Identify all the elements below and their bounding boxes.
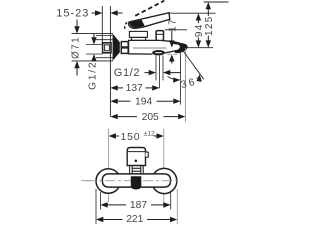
svg-text:15-23: 15-23 <box>56 7 89 19</box>
dim G1/2 (left, wall connection) <box>88 34 99 90</box>
svg-text:125: 125 <box>204 16 215 36</box>
body inner line <box>133 47 167 49</box>
svg-text:150: 150 <box>121 131 141 143</box>
knob-top extension line <box>165 29 188 31</box>
dim 221 <box>96 214 177 225</box>
36° jet line <box>183 51 204 79</box>
dim 194 <box>110 97 180 108</box>
extension line from spout tip <box>184 48 186 122</box>
escutcheon circle left <box>96 169 121 194</box>
dim 94 <box>194 13 205 48</box>
handle-top extension line <box>169 12 216 14</box>
mixer body (side view) <box>129 40 161 54</box>
wall line right / dimension extension line <box>109 6 111 117</box>
raised-handle extension line <box>204 1 229 3</box>
svg-text:G1/2: G1/2 <box>114 67 140 79</box>
handle (front view) <box>127 148 148 166</box>
svg-text:187: 187 <box>130 200 147 211</box>
dim G1/2 (horizontal, shower outlet) <box>114 67 181 79</box>
lever tip (front view, dark) <box>131 176 142 189</box>
svg-text:17: 17 <box>167 18 178 32</box>
handle raised-position dashes <box>135 1 164 16</box>
supply centreline right <box>163 129 165 209</box>
dim 125 <box>204 2 215 48</box>
outlet stub extension lines <box>155 55 157 80</box>
pivot dashes <box>125 22 128 29</box>
handle skirt / cartridge front <box>130 166 144 175</box>
supply centreline left <box>108 129 110 203</box>
svg-text:221: 221 <box>126 214 143 225</box>
svg-text:194: 194 <box>135 97 152 108</box>
svg-text:137: 137 <box>126 83 143 94</box>
svg-text:Ø71: Ø71 <box>71 36 82 59</box>
spout tip (dark) <box>173 42 187 53</box>
union nut <box>121 42 128 47</box>
escutcheon cone (side view, solid) <box>113 34 120 61</box>
svg-text:205: 205 <box>142 112 159 123</box>
escutcheon circle right <box>152 168 177 193</box>
centreline dashes over bar <box>86 180 181 182</box>
svg-text:±12: ±12 <box>144 131 156 138</box>
G1/2 nipple square <box>103 43 111 53</box>
lever handle (side view) <box>128 13 169 29</box>
S-union pipe behind wall <box>96 35 113 37</box>
dim 187 extension lines <box>99 192 101 210</box>
shower outlet lens (bottom of body) <box>152 50 165 55</box>
dim 221 extension lines <box>95 189 97 224</box>
aerator hidden line <box>167 53 181 55</box>
diverter knob on body <box>156 31 164 41</box>
dim 137 <box>110 83 159 94</box>
svg-text:G1/2: G1/2 <box>88 61 99 90</box>
dim Ø71 (escutcheon diameter, side view) <box>71 20 113 76</box>
wall line left <box>101 6 103 44</box>
spout underside curve <box>165 50 177 53</box>
arc arrow at vertical line <box>173 78 180 83</box>
dim 150±12 <box>109 131 164 143</box>
dim 17 <box>167 18 178 64</box>
dim 187 <box>100 200 170 211</box>
cartridge under handle <box>129 31 147 37</box>
spout top curve <box>161 40 180 43</box>
outlet level extension line <box>185 47 213 49</box>
horizontal centreline <box>81 180 181 182</box>
extension line from aerator centre <box>180 48 182 104</box>
dim 205 <box>110 112 185 123</box>
arc arrow at jet line <box>197 74 202 82</box>
36° arc <box>168 77 179 81</box>
dim 15-23 <box>56 7 122 19</box>
body bar (front view) <box>102 174 170 187</box>
